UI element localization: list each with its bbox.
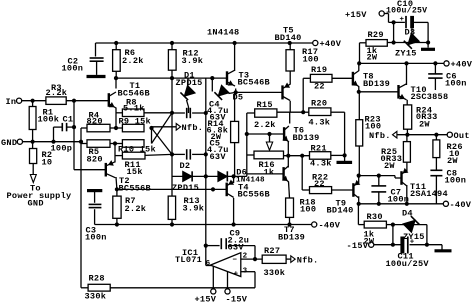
svg-text:63V: 63V [228,242,245,252]
svg-text:+: + [234,271,239,279]
wire R4-R9 node [110,127,123,129]
svg-text:100n: 100n [62,64,84,74]
terminal -40V right [443,201,448,206]
svg-text:R27: R27 [264,246,280,256]
wire T1 emitter node [115,108,117,129]
svg-text:Nfb.: Nfb. [369,131,391,141]
svg-text:2W: 2W [384,161,395,171]
wire T2 emitter vertical [114,144,116,163]
terminal GND [17,139,22,144]
wire T3 emitter [235,89,237,93]
wire R16 left stem [247,154,254,156]
svg-text:6: 6 [206,260,211,268]
svg-text:100n: 100n [445,175,467,185]
resistor R24 [404,105,412,129]
wire R22 branch vertical [301,156,303,190]
wire T4 collector [233,198,235,225]
wire R28 left stem [81,287,88,289]
svg-text:1N4148: 1N4148 [207,28,239,38]
zener D2 [183,171,192,181]
zener D4 [403,220,415,232]
preset R16 wiper arrow [266,142,272,150]
zener D1 [184,85,195,96]
Nfb out arrow left [176,124,180,131]
transistor T8 [352,72,354,86]
svg-text:TL071: TL071 [175,255,202,265]
wire C4 left [172,112,185,114]
svg-text:2: 2 [243,253,248,261]
wire T5 emitter joint [289,71,291,85]
wire T7 collector [287,156,289,168]
terminal -40V left [312,222,317,227]
wire bias bottom row y155.7 [284,155,310,157]
svg-text:-15V: -15V [347,241,369,251]
wire R27 right to Nfb arrow [286,258,291,260]
resistor R14 [231,121,239,142]
svg-text:R15: R15 [257,100,273,110]
wire Nfb tap left [152,126,177,128]
wire T3 collector [234,43,236,71]
wire R5-R10 node [110,143,123,145]
wire +15V tie vertical [393,22,395,42]
capacitor C9 [220,238,222,249]
wire R25 bottom to T11 emitter [406,162,408,172]
svg-text:-15V: -15V [226,295,248,305]
resistor R3 [46,97,66,105]
wire D4 loop right vertical [426,225,428,245]
svg-text:2W: 2W [419,119,430,129]
resistor R9 [122,124,144,132]
wire R29 left to +40V rail [360,42,367,44]
wire R2 to arrow [32,164,34,175]
wire output row y134.7 [397,134,447,136]
wire C5 right [192,153,206,155]
svg-text:22: 22 [314,82,325,92]
wire R20-R21 tie vertical [344,112,346,155]
resistor R18 [286,198,294,217]
wire R19 right to T8 base [332,77,353,79]
wire front -40V rail y224.5 [95,224,312,226]
wire T9 emitter [358,176,360,183]
wire bias top row y113 [277,111,303,113]
svg-text:2.2k: 2.2k [254,120,276,130]
svg-text:2.2k: 2.2k [122,56,144,66]
wire bias rail x246.8 [246,113,248,176]
wire R14 bottom stem [234,143,236,177]
resistor R21 [310,152,331,160]
transistor T6 [283,127,285,141]
svg-text:100n: 100n [388,194,410,204]
svg-text:+15V: +15V [345,10,367,20]
terminal -15V opamp [225,289,230,294]
wire R25 top stem [406,135,408,142]
wire R5 left stem [81,143,87,145]
wire x392.9 down [392,225,394,245]
resistor R13 [168,196,175,219]
svg-text:2SC3858: 2SC3858 [411,92,449,102]
resistor R1 [29,107,36,130]
resistor R2 [30,149,37,164]
wire -40V right rail [359,203,444,205]
svg-text:100u/25V: 100u/25V [386,259,430,269]
resistor R25 [403,142,410,163]
svg-text:ZY15: ZY15 [403,232,425,242]
wire R3 to base node [66,100,109,102]
svg-text:BD139: BD139 [363,79,390,89]
svg-text:BC556B: BC556B [238,189,270,199]
wire input [22,100,46,102]
ground bar right bottom [435,249,452,252]
wire T9 collector [358,196,360,204]
svg-text:BD140: BD140 [327,205,354,215]
svg-text:100p: 100p [51,143,73,153]
wire D4 row [393,224,427,226]
wire T11 base jog [394,176,396,178]
wire R1 stems [32,101,34,107]
wire R11 right [145,154,172,155]
Nfb arrow right mid [393,131,397,138]
wire T1 collector [115,78,117,88]
wire mid bus x205.8 [205,78,207,266]
wire cross diagonal 2 [152,128,173,154]
svg-text:R10 15k: R10 15k [118,145,156,155]
junction dots [114,41,118,45]
wire R8 left stem [116,112,122,114]
capacitor C4 [186,108,188,118]
wire R21 right [331,154,345,156]
wire C7 stems [378,176,380,186]
resistor R27 [262,255,286,263]
svg-text:330k: 330k [264,268,286,278]
svg-text:BC546B: BC546B [238,78,270,88]
wire C1 right [67,126,74,128]
svg-text:+15V: +15V [195,295,217,305]
wire left bus x81 [80,128,82,288]
wire T8 emitter [358,86,360,92]
resistor R23 [356,120,363,146]
svg-text:Nfb.: Nfb. [297,255,319,265]
svg-text:820: 820 [87,116,103,126]
capacitor C10 electrolytic [405,16,407,28]
wire T2 base [74,169,106,171]
transistor T4 [225,183,227,197]
terminal +15V [379,11,384,16]
wire C10 left [389,21,405,23]
svg-text:22: 22 [314,179,325,189]
wire C9 right [228,245,255,247]
resistor R11 [122,152,145,159]
transistor T2 [105,163,107,177]
wire R7 bottom stem [116,218,118,224]
wire C6 stems [434,63,436,74]
Nfb arrow opamp [291,256,295,263]
wire T6 emitter [287,142,289,156]
wire T7 emitter to R18 [289,182,290,199]
wire T6 collector [289,112,291,123]
terminal +15V opamp [211,289,216,294]
wire R29 right stem [387,42,393,44]
wire T7 base row [247,173,284,175]
svg-text:3.9k: 3.9k [183,203,205,213]
svg-text:BD140: BD140 [275,33,302,43]
wire C3 stems [94,192,96,203]
wire -15V row [374,244,401,246]
svg-text:BD139: BD139 [278,232,305,242]
wire T10 collector [406,63,408,85]
svg-text:3: 3 [243,267,248,275]
svg-text:R9 15k: R9 15k [119,116,151,126]
resistor R15 [255,109,277,117]
svg-text:-40V: -40V [450,200,472,210]
wire T1-collector row y78 [116,77,227,79]
wire R23 bottom stem [358,146,360,176]
capacitor C7 [371,185,386,187]
svg-text:+40V: +40V [320,39,342,49]
ground bar R20R21 [337,161,353,164]
preset R16 [254,151,284,159]
arrow to power supply GND [30,175,36,183]
resistor R20 [309,108,331,116]
wire R22 right to T9 base [332,189,354,191]
svg-text:10: 10 [42,157,53,167]
svg-text:+: + [400,16,405,24]
wire R20 left stem [303,111,309,113]
resistor R26 [433,140,440,158]
resistor R6 [113,50,121,72]
resistor R19 [310,74,332,82]
transistor T11 [400,171,402,185]
wire R12 stems and column [171,43,173,50]
svg-text:ZPD15: ZPD15 [172,183,199,193]
wire T8 collector [358,63,360,71]
wire GND rail [23,141,81,143]
wire R19-R20 left vertical [302,78,304,112]
svg-text:3.9k: 3.9k [182,56,204,66]
svg-text:R21: R21 [311,143,327,153]
wire T9 node down to R30 [357,204,359,225]
terminal Out [447,132,452,137]
wire C2 stem [95,43,97,57]
svg-text:D4: D4 [402,209,413,219]
wire T10 emitter to R24 [406,100,408,105]
svg-text:In: In [6,97,17,107]
wire C11 right to gnd [410,244,443,246]
ground bar D3 [421,48,435,51]
resistor R22 [310,187,332,194]
svg-text:100n: 100n [85,233,107,243]
wire opamp pin2 to R27 [241,258,262,260]
transistor T9 [352,183,354,197]
wire +40V top rail [96,42,316,44]
wire C9 left [206,245,220,247]
svg-text:100: 100 [303,55,319,65]
resistor R10 [122,140,144,148]
transistor T5 [281,85,283,99]
wire R19 left stem [303,77,310,79]
resistor R28 [88,284,110,291]
wire R20 right [331,111,345,113]
svg-text:330k: 330k [85,291,107,301]
svg-text:ZPD15: ZPD15 [176,78,203,88]
capacitor C3 [87,189,102,192]
capacitor C8 [430,169,442,171]
wire +40V right rail [359,62,444,64]
wire base bus vertical [73,101,75,170]
resistor R17 [286,50,294,71]
wire R6 stems [115,43,117,50]
svg-text:100u/25V: 100u/25V [386,6,427,16]
ground stem R20R21 [344,155,346,161]
diode D6 [218,171,227,181]
resistor R7 [113,196,121,218]
svg-text:R29: R29 [368,30,384,40]
wire D3 loop right [427,22,429,47]
wire opamp power pins [212,267,214,290]
wire T8-T10 base row [359,91,399,93]
wire R11 left stem [115,155,122,157]
svg-text:C1: C1 [63,114,74,124]
wire opamp pin3 loop [241,271,255,273]
wire +15V terminal [384,13,388,15]
svg-text:−: − [232,256,237,264]
wire R14 top stem [234,93,236,122]
wire D5 stem [211,78,213,91]
svg-text:5.1k: 5.1k [123,104,145,114]
resistor R30 [364,221,386,228]
svg-text:100: 100 [300,204,316,214]
svg-text:BD139: BD139 [293,133,320,143]
wire D2 D6 row y176 [172,175,247,177]
wire R7 top stem [116,189,118,196]
ground C2 [87,75,106,78]
terminal -15V [369,242,374,247]
wire T6 base row [247,133,284,135]
svg-text:2SA1494: 2SA1494 [410,189,448,199]
svg-text:BC556B: BC556B [119,183,151,193]
capacitor C11 electrolytic [400,237,404,254]
wire C5 left [172,153,185,155]
svg-text:1k: 1k [264,167,275,177]
wire R24 bottom stem [406,129,408,135]
wire R13 bottom stem [171,219,173,224]
wire T4 emitter [233,176,235,183]
capacitor C6 [428,73,442,75]
svg-text:GND: GND [1,138,17,148]
wire R16 wiper stem [269,134,271,142]
wire C8 bottom stem [435,176,437,204]
svg-text:2W: 2W [367,52,378,62]
wire T3-T5 base row y92.4 [236,91,283,93]
diode D5 [218,85,229,96]
wire D5 to T3 emitter [229,92,236,93]
capacitor C1 [61,123,63,131]
wire D1 stems [187,78,189,85]
svg-text:GND: GND [28,198,44,208]
svg-text:2W: 2W [447,156,458,166]
wire R23 top stem [358,92,360,120]
wire T11 collector [406,185,408,204]
svg-text:D2: D2 [180,161,191,171]
svg-text:D5: D5 [233,92,244,102]
wire C1 left [54,126,63,128]
resistor R5 [87,140,110,148]
transistor T10 [397,85,399,99]
svg-text:R28: R28 [89,274,105,284]
terminal +40V top [313,40,318,45]
svg-text:820: 820 [87,154,103,164]
terminal In [17,98,22,103]
wire T9 emitter node row y175.6 [359,175,395,177]
svg-text:ZY15: ZY15 [395,48,417,58]
terminal +40V right [444,61,449,66]
svg-text:4.3k: 4.3k [310,158,332,168]
transistor T7 [282,167,284,181]
wire C10 right [414,21,428,23]
wire R4 left stem [81,127,87,129]
transistor T1 [108,93,110,107]
svg-text:2.2k: 2.2k [125,204,147,214]
capacitor C2 [90,57,104,59]
wire cross diagonal 1 [152,113,173,144]
svg-text:63V: 63V [210,152,227,162]
wire R26 stems [435,135,437,140]
wire R17 stems [289,43,291,50]
resistor R8 [122,109,144,117]
transistor T3 [226,71,228,85]
wire T5 collector [289,101,291,112]
capacitor C5 [186,149,188,159]
svg-text:4.3k: 4.3k [309,118,331,128]
zener D3 [408,33,419,44]
svg-text:R30: R30 [367,212,383,222]
svg-text:100k: 100k [38,114,60,124]
wire R18 bottom stem [289,217,291,224]
svg-text:-40V: -40V [319,221,341,231]
wire R30 right stem [386,224,393,226]
wire R15 left stem [247,112,255,114]
wire C4 right [192,112,206,114]
op-amp IC1 TL071 [210,253,240,277]
svg-text:2.2k: 2.2k [46,88,68,98]
svg-text:Out: Out [454,131,470,141]
svg-text:100n: 100n [445,79,467,89]
wire T2 collector row to T4 base [117,188,227,190]
wire R9-R10 right tie [151,128,153,144]
wire R8 right [144,112,172,114]
svg-text:+40V: +40V [451,59,473,69]
wire T2 collector vertical [115,177,118,189]
wire opamp output [206,265,212,267]
resistor R4 [87,124,110,132]
svg-text:Nfb.: Nfb. [182,123,204,133]
svg-text:D3: D3 [405,28,416,38]
svg-text:R20: R20 [311,98,327,108]
wire D3 bottom row [394,42,429,44]
svg-text:R19: R19 [311,65,327,75]
resistor R29 [366,40,387,47]
resistor R12 [168,50,176,70]
